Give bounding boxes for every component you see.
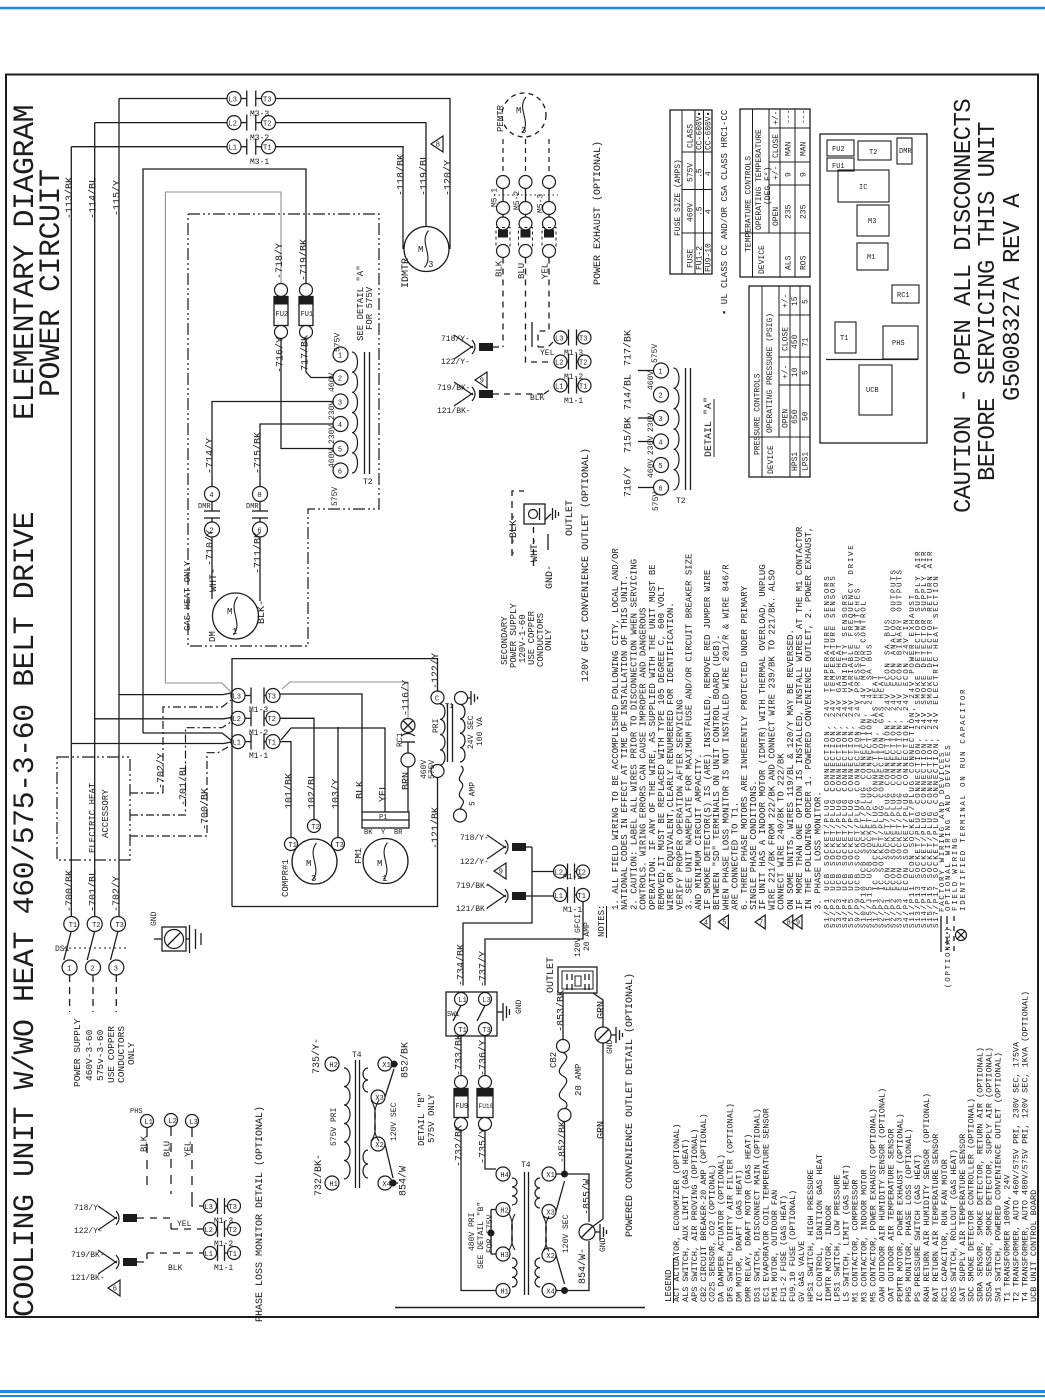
svg-text:L2: L2 xyxy=(555,359,563,367)
label 852/BK detail xyxy=(400,1042,412,1078)
label 114/BL xyxy=(88,177,100,219)
svg-text:DMR: DMR xyxy=(899,148,912,156)
svg-text:YEL: YEL xyxy=(540,349,555,358)
svg-text:GND: GND xyxy=(150,911,159,926)
svg-text:-714/Y: -714/Y xyxy=(205,438,217,474)
stub wire above plug1 xyxy=(531,322,533,347)
electric heat accessory box xyxy=(57,757,130,860)
svg-text:103/Y: 103/Y xyxy=(331,779,343,809)
svg-text:OPEN: OPEN xyxy=(782,409,791,428)
svg-text:M5-2: M5-2 xyxy=(513,191,522,210)
plug connector 719/BK-121/BK (power exhaust) xyxy=(437,382,552,416)
label BLU PHS xyxy=(163,1141,173,1157)
socket/plug note 9 xyxy=(872,674,880,928)
legend entry SAT xyxy=(958,1134,968,1302)
socket/plug note 2 xyxy=(830,575,838,928)
dashed YEL PHS xyxy=(191,1128,193,1200)
legend entry ALS xyxy=(681,1139,691,1302)
svg-text:460V: 460V xyxy=(647,459,656,478)
svg-text:2: 2 xyxy=(658,392,662,400)
label 715/BK xyxy=(253,432,265,474)
note line 18 xyxy=(767,570,777,910)
legend entry RC1 xyxy=(940,1159,950,1302)
svg-text:5: 5 xyxy=(802,299,811,304)
svg-text:GRN: GRN xyxy=(597,1121,608,1139)
svg-text:-700/BK: -700/BK xyxy=(64,870,76,912)
junction 854/W detail xyxy=(385,1144,398,1187)
svg-text:L1: L1 xyxy=(144,1119,152,1127)
dashed YEL to M1-3 det xyxy=(192,1200,203,1206)
svg-text:T1: T1 xyxy=(69,922,77,930)
svg-text:T1: T1 xyxy=(458,1027,466,1035)
label YEL at M1 option xyxy=(540,349,555,358)
svg-text:120V SEC: 120V SEC xyxy=(562,1214,571,1253)
svg-text:T2: T2 xyxy=(363,478,373,487)
svg-text:M3: M3 xyxy=(868,218,876,226)
label 715/BK detail xyxy=(623,417,635,453)
label POWER EXHAUST (OPTIONAL) xyxy=(592,141,604,285)
ground at SW1 xyxy=(497,999,524,1021)
svg-text:M: M xyxy=(377,859,382,869)
label BLK at M1 option xyxy=(530,394,545,403)
svg-text:8: 8 xyxy=(436,142,440,150)
wire 854/W xyxy=(565,1241,590,1291)
wire 716/Y FU2 to T2-5 xyxy=(281,339,333,449)
socket/plug note 4 xyxy=(842,593,850,928)
wire YEL to P1 xyxy=(281,728,385,812)
svg-text:L3: L3 xyxy=(189,1119,197,1127)
svg-text:WHT-: WHT- xyxy=(530,538,541,562)
svg-text:-736/Y: -736/Y xyxy=(478,1040,490,1076)
svg-text:122/Y-: 122/Y- xyxy=(74,1227,103,1236)
svg-text:7: 7 xyxy=(759,920,763,928)
svg-text:-701/BL: -701/BL xyxy=(88,870,100,912)
svg-text:X1: X1 xyxy=(382,1062,390,1070)
label SEE DETAIL A FOR 575V line1 xyxy=(356,265,366,341)
plug connector 718/Y-122/Y (phase loss) xyxy=(74,1204,171,1236)
dashed BLK PHS xyxy=(146,1128,148,1187)
legend entry T4 xyxy=(1020,991,1030,1302)
svg-text:T1: T1 xyxy=(578,893,586,901)
dashed BLK wire to outlet xyxy=(512,491,524,556)
label 716/Y detail xyxy=(623,467,635,497)
wire 702/Y dash-dot xyxy=(130,700,231,793)
svg-text:4: 4 xyxy=(704,920,708,928)
svg-text:L2: L2 xyxy=(205,1227,213,1235)
svg-text:L2: L2 xyxy=(555,869,563,877)
note line 2 xyxy=(620,575,630,910)
svg-text:3. PHASE LOSS MONITOR.: 3. PHASE LOSS MONITOR. xyxy=(813,791,823,910)
note line 16 xyxy=(749,780,759,910)
svg-text:121/BK-: 121/BK- xyxy=(456,905,490,914)
legend entry FU1-2 xyxy=(779,1195,789,1302)
label 718/Y xyxy=(274,243,286,279)
svg-text:235: 235 xyxy=(800,204,809,219)
label 122/Y xyxy=(430,653,442,689)
svg-text:OUTLET: OUTLET xyxy=(546,957,557,993)
contactor pole M1-2 det xyxy=(204,1221,241,1249)
label 734/BK xyxy=(456,944,468,986)
contactor pole M1-1 outlet aux xyxy=(554,887,590,915)
svg-text:9: 9 xyxy=(499,869,503,877)
svg-text:460V: 460V xyxy=(687,203,696,222)
svg-text:T2: T2 xyxy=(92,922,100,930)
label YEL M5 xyxy=(541,263,551,279)
svg-text:1: 1 xyxy=(382,874,387,884)
svg-text:235: 235 xyxy=(785,204,794,219)
legend entry CO2S xyxy=(708,1164,718,1302)
label BLK det xyxy=(168,1264,183,1273)
svg-text:5: 5 xyxy=(722,920,726,928)
svg-text:718/Y-: 718/Y- xyxy=(74,1204,103,1213)
T4 pri crossover xyxy=(509,1214,515,1250)
component M3 box xyxy=(857,205,889,236)
label 20 AMP outlet xyxy=(583,922,592,951)
wiring legend run capacitor xyxy=(956,688,969,941)
gas heat option outline xyxy=(188,214,379,646)
svg-text:230V: 230V xyxy=(328,425,337,444)
socket/plug note 11 xyxy=(885,618,893,928)
svg-text:719/BK-: 719/BK- xyxy=(456,882,490,891)
dashed WHT wire xyxy=(533,527,535,568)
svg-text:5: 5 xyxy=(802,370,811,375)
wire GRN join xyxy=(592,1219,603,1227)
label 702/Y xyxy=(156,753,168,789)
svg-text:FOR 575V: FOR 575V xyxy=(486,1214,495,1253)
svg-text:DEVICE: DEVICE xyxy=(767,445,776,474)
svg-text:1: 1 xyxy=(232,627,237,637)
wire plug to M1-2 aux xyxy=(532,871,553,873)
note line 4 xyxy=(639,608,649,910)
junction X1 852/BK xyxy=(556,1171,568,1212)
ground lug GND at DS1 xyxy=(150,911,201,953)
svg-text:UCB UNIT CONTROL BOARD: UCB UNIT CONTROL BOARD xyxy=(1029,1190,1039,1302)
svg-text:719/BK-: 719/BK- xyxy=(437,384,471,393)
svg-text:717/BK: 717/BK xyxy=(623,330,635,366)
svg-text:X4: X4 xyxy=(382,1181,390,1189)
svg-text:-701/BL: -701/BL xyxy=(178,764,190,806)
svg-text:Y: Y xyxy=(381,829,386,837)
label BLK dashed xyxy=(509,514,520,556)
label 115/Y xyxy=(112,180,124,216)
contactor M5 columns xyxy=(491,139,559,258)
feeder tap 114/BL to M1-2 xyxy=(95,718,231,719)
svg-text:575V: 575V xyxy=(652,492,661,511)
svg-text:FU1: FU1 xyxy=(301,311,314,319)
svg-text:-702/Y: -702/Y xyxy=(111,876,123,912)
wiring legend field xyxy=(952,837,960,952)
label 701/BL xyxy=(178,764,190,806)
svg-text:T2: T2 xyxy=(579,359,587,367)
T2 wire stub t4 715/BK xyxy=(260,424,333,494)
svg-text:BLK: BLK xyxy=(140,1135,150,1152)
svg-text:+/-: +/- xyxy=(782,365,791,379)
svg-text:5: 5 xyxy=(658,463,662,471)
svg-text:TEMPERATURE CONTROLS: TEMPERATURE CONTROLS xyxy=(745,156,754,252)
svg-text:GND-: GND- xyxy=(545,565,556,589)
note line 14 xyxy=(731,802,741,910)
svg-text:X2: X2 xyxy=(375,1142,383,1150)
socket/plug note 3 xyxy=(836,643,844,928)
svg-text:M5-3: M5-3 xyxy=(537,194,546,213)
svg-text:H4: H4 xyxy=(500,1172,508,1180)
detail A stub t4 xyxy=(638,441,654,443)
label 121/BK xyxy=(430,807,442,849)
svg-text:GRN: GRN xyxy=(597,1001,608,1019)
svg-text:9: 9 xyxy=(785,172,794,177)
svg-text:1: 1 xyxy=(338,352,342,360)
note line 9 xyxy=(685,554,695,910)
feeder tap 113/BK to M1-1 xyxy=(71,742,231,744)
legend entry ROS xyxy=(949,1149,959,1302)
note line 3 xyxy=(629,559,639,910)
svg-text:X2: X2 xyxy=(546,1253,554,1261)
socket/plug note 19 xyxy=(933,575,941,928)
svg-text:10: 10 xyxy=(791,367,800,377)
wire BLK to P1 xyxy=(280,694,362,812)
wire 734/BK xyxy=(463,847,532,986)
title COOLING UNIT W/WO HEAT 460/575-3-60 BELT DRIVE xyxy=(9,512,43,1317)
legend entry PS xyxy=(913,1154,923,1302)
label 714/BL detail xyxy=(623,374,635,410)
svg-text:460V-3-60: 460V-3-60 xyxy=(84,1029,95,1081)
svg-text:3: 3 xyxy=(428,260,433,270)
svg-text:PRI: PRI xyxy=(432,719,441,733)
svg-text:102/BL: 102/BL xyxy=(307,773,319,809)
label 120V SEC main xyxy=(562,1214,571,1253)
svg-text:T3: T3 xyxy=(268,693,276,701)
plug connector 718/Y-122/Y (conv outlet) xyxy=(460,834,532,867)
svg-text:T1: T1 xyxy=(579,383,587,391)
svg-text:24V SEC: 24V SEC xyxy=(467,715,476,749)
switch SW1 xyxy=(446,992,497,1036)
fuse FU2 xyxy=(274,284,288,339)
svg-text:BRN: BRN xyxy=(402,772,413,790)
socket/plug note 1 xyxy=(824,575,832,928)
svg-text:OPERATING TEMPERATURE: OPERATING TEMPERATURE xyxy=(755,129,764,230)
motor IDMTR xyxy=(401,227,449,289)
svg-text:CLOSE: CLOSE xyxy=(772,134,781,158)
svg-text:1: 1 xyxy=(658,368,662,376)
table TEMPERATURE CONTROLS xyxy=(740,109,810,277)
svg-text:L1: L1 xyxy=(233,739,241,747)
label 852/BK xyxy=(557,1121,569,1163)
legend entry PEMTR xyxy=(895,1113,905,1302)
legend entry OAT xyxy=(886,1129,896,1302)
svg-text:230V: 230V xyxy=(647,436,656,455)
svg-text:SEE DETAIL "B": SEE DETAIL "B" xyxy=(477,1202,486,1269)
svg-text:DMR: DMR xyxy=(246,503,259,511)
svg-text:OPERATING PRESSURE (PSIG): OPERATING PRESSURE (PSIG) xyxy=(766,313,775,433)
svg-text:CC-600V▪: CC-600V▪ xyxy=(696,112,705,150)
svg-text:M1-1: M1-1 xyxy=(564,397,583,406)
dashed wire BLU M5 xyxy=(526,258,549,363)
svg-text:20 AMP: 20 AMP xyxy=(583,922,592,951)
label SEE DETAIL A FOR 575V line2 xyxy=(365,286,375,330)
legend entry SW1 xyxy=(993,1052,1003,1302)
socket/plug note 6 xyxy=(854,587,862,928)
svg-text:DETAIL "B": DETAIL "B" xyxy=(417,1092,427,1146)
svg-text:.5: .5 xyxy=(696,168,705,178)
svg-text:4: 4 xyxy=(338,422,342,430)
svg-text:-116/Y: -116/Y xyxy=(401,680,413,716)
label 710/Y and WHT xyxy=(205,530,221,592)
svg-text:120V GFCI: 120V GFCI xyxy=(574,914,583,957)
legend entry HPS1 xyxy=(806,1169,816,1302)
svg-text:9: 9 xyxy=(480,378,484,386)
svg-text:P1: P1 xyxy=(379,814,387,822)
wire 733/BK xyxy=(460,1036,462,1076)
svg-text:YEL: YEL xyxy=(379,784,390,802)
label GRN 2 xyxy=(597,1121,608,1139)
svg-text:T2: T2 xyxy=(311,824,319,832)
svg-text:6: 6 xyxy=(113,1286,117,1294)
detail A stub t1 xyxy=(638,370,654,372)
legend entry SDC xyxy=(967,1098,977,1302)
svg-text:PEMTR: PEMTR xyxy=(496,104,506,132)
wire 737/Y xyxy=(485,902,583,986)
svg-text:T2: T2 xyxy=(869,149,877,157)
svg-text:T2: T2 xyxy=(229,1227,237,1235)
relay contact DMR col2 (terminals 8-6) xyxy=(246,487,268,538)
svg-text:852/BK: 852/BK xyxy=(400,1042,412,1078)
note line 12 xyxy=(712,635,722,910)
label YEL PHS xyxy=(184,1141,194,1157)
label WHT xyxy=(530,538,541,562)
detail A stub t6 xyxy=(638,487,654,489)
dashed BLU to M1-2 det xyxy=(171,1228,203,1230)
svg-text:-732/BK: -732/BK xyxy=(454,1125,466,1167)
label GAS HEAT ONLY xyxy=(183,560,193,631)
label T2 detail xyxy=(676,497,686,506)
svg-text:RC1: RC1 xyxy=(396,732,405,747)
note line 6 xyxy=(657,585,667,910)
wire 115/Y vertical bus xyxy=(118,99,120,918)
wiring legend factory xyxy=(939,751,947,952)
svg-text:T1: T1 xyxy=(840,335,848,343)
label 101/BK xyxy=(284,773,296,809)
motor FM1 xyxy=(354,839,408,885)
label POWERED CONVENIENCE OUTLET DETAIL xyxy=(624,973,636,1237)
svg-text:POWER SUPPLY: POWER SUPPLY xyxy=(72,1018,83,1087)
label GND outlet xyxy=(545,565,556,589)
transformer T4 detail B secondary xyxy=(363,1057,392,1190)
svg-text:IDMTR: IDMTR xyxy=(401,258,412,288)
wire 121/BK loop xyxy=(232,778,438,907)
autotransformer T2 terminals xyxy=(333,347,348,478)
autotransformer T2 detail A terminals xyxy=(654,363,669,495)
relay contact DMR col1 (terminals 4-2) xyxy=(198,487,220,538)
T4 detail core xyxy=(356,1060,360,1188)
contactor pole M3-1 xyxy=(227,139,276,167)
note line 19 xyxy=(777,753,787,910)
socket/plug note 15 xyxy=(909,593,917,928)
label 854/W xyxy=(577,1248,589,1284)
component location box xyxy=(820,134,927,443)
T1 primary tap terminal 460V/575V xyxy=(420,760,444,779)
plug connector 719/BK-121/BK (conv outlet) xyxy=(456,882,553,914)
label 737/Y xyxy=(478,951,490,987)
svg-text:CC-600V▪: CC-600V▪ xyxy=(705,112,714,150)
legend entry SDRA xyxy=(976,1047,986,1302)
svg-text:NOTES:: NOTES: xyxy=(597,905,607,937)
label ELECTRIC HEAT xyxy=(88,782,98,853)
svg-text:3: 3 xyxy=(338,399,342,407)
svg-text:L2: L2 xyxy=(168,1118,176,1126)
svg-text:G5008327A REV A: G5008327A REV A xyxy=(1000,193,1027,401)
junction X4 854/W xyxy=(556,1255,568,1294)
svg-text:BEFORE SERVICING THIS UNIT: BEFORE SERVICING THIS UNIT xyxy=(975,122,1002,481)
svg-text:GND: GND xyxy=(606,1039,615,1054)
svg-text:T3: T3 xyxy=(115,922,123,930)
legend entry GV xyxy=(797,1241,807,1302)
svg-text:---: --- xyxy=(800,110,809,124)
svg-text:GND: GND xyxy=(515,999,524,1014)
svg-text:POWER EXHAUST (OPTIONAL): POWER EXHAUST (OPTIONAL) xyxy=(592,141,604,285)
T4 sec crossover xyxy=(543,1216,549,1251)
svg-text:L1: L1 xyxy=(205,1251,213,1259)
note triangle 9 (power exhaust) xyxy=(475,372,487,388)
svg-text:460V: 460V xyxy=(328,373,337,392)
legend entry FM1 xyxy=(770,1190,780,1302)
wire GRN from outlet xyxy=(593,993,603,1027)
svg-text:+/-: +/- xyxy=(782,294,791,308)
wire 101/BK xyxy=(280,742,291,837)
label 118/BK xyxy=(396,154,408,196)
junction 852/BK detail xyxy=(385,1061,398,1098)
svg-text:8: 8 xyxy=(787,920,791,928)
svg-text:+/-: +/- xyxy=(772,111,781,125)
legend entry LPS1 xyxy=(833,1174,843,1302)
legend entry DA xyxy=(717,1154,727,1302)
svg-text:ALS: ALS xyxy=(785,255,794,270)
svg-text:732/BK-: 732/BK- xyxy=(313,1154,325,1196)
label ACCESSORY xyxy=(101,789,111,838)
component FU2 box xyxy=(827,140,854,156)
svg-text:4: 4 xyxy=(705,171,714,176)
plug connector 718/Y-122/Y (power exhaust) xyxy=(441,335,503,367)
component T1 box xyxy=(835,322,856,353)
transformer T1 primary terminal C xyxy=(431,691,444,704)
svg-text:X1: X1 xyxy=(546,1172,554,1180)
svg-text:T1: T1 xyxy=(268,739,276,747)
note line 8 xyxy=(675,699,685,910)
svg-text:575V ONLY: 575V ONLY xyxy=(427,1094,437,1143)
label 120/Y xyxy=(443,160,455,196)
svg-text:-711/BK: -711/BK xyxy=(253,532,265,574)
svg-text:(OPTIONAL): (OPTIONAL) xyxy=(945,926,953,988)
svg-text:CAUTION - OPEN ALL DISCONNECTS: CAUTION - OPEN ALL DISCONNECTS xyxy=(951,99,978,513)
svg-text:FM1: FM1 xyxy=(354,848,364,864)
svg-text:9: 9 xyxy=(796,920,800,928)
svg-text:DM: DM xyxy=(208,631,218,642)
label 716/Y xyxy=(275,337,287,373)
svg-text:BK: BK xyxy=(364,829,373,837)
contactor pole M1-3 det xyxy=(204,1198,241,1226)
svg-text:T2: T2 xyxy=(263,120,271,128)
label BLK M5 xyxy=(495,260,505,277)
svg-text:M3-1: M3-1 xyxy=(250,158,269,167)
svg-text:-114/BL: -114/BL xyxy=(88,177,100,219)
label 120V GFCI xyxy=(574,914,583,957)
contactor pole M3-2 xyxy=(227,115,276,143)
svg-text:L2: L2 xyxy=(229,120,237,128)
svg-text:M: M xyxy=(306,859,311,869)
svg-text:DETAIL "A": DETAIL "A" xyxy=(703,397,715,457)
separator line above legend xyxy=(395,1307,645,1309)
label 732/BK xyxy=(454,1125,466,1167)
label 853/BK xyxy=(556,990,568,1032)
